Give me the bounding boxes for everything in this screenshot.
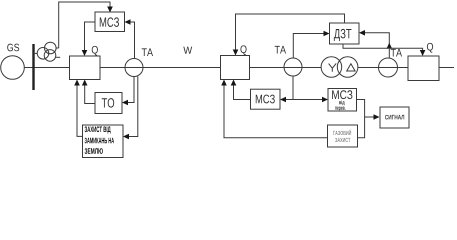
relay TO cutoff <box>95 93 122 114</box>
wire DZT to Q2 trip top run <box>236 14 345 54</box>
earth fault protection box <box>83 125 124 158</box>
wire transformer to Q3 <box>358 67 408 69</box>
wire TO to Q1 trip <box>85 81 95 104</box>
wire W line TA1 to breaker Q2 <box>100 67 221 69</box>
text signal <box>385 115 404 120</box>
breaker Q1 <box>70 56 101 80</box>
breaker Q2 <box>221 56 250 80</box>
text earth fault line2 <box>85 138 114 144</box>
wire TA3 to DZT <box>361 33 390 58</box>
label W <box>183 47 192 54</box>
label Q3 <box>427 43 433 53</box>
text earth fault line3 <box>85 148 103 154</box>
text MC3 U3 <box>332 90 352 99</box>
label Y winding <box>329 63 337 71</box>
direction arrow on TA3 wire <box>387 43 393 49</box>
label TA3 <box>391 49 402 57</box>
text vid U3 <box>339 100 345 105</box>
gas protection box <box>328 125 358 147</box>
voltage transformer TV (3-winding) <box>35 42 61 61</box>
transformer T1 star-delta <box>321 57 358 78</box>
relay DZT differential <box>330 23 360 44</box>
label TA2 <box>275 46 286 54</box>
breaker Q3 <box>408 56 439 81</box>
text MC3 U1 <box>100 17 119 27</box>
CT TA1 <box>125 59 143 77</box>
label TA1 <box>142 48 153 56</box>
wire TA1 to relay MC3 <box>127 22 135 59</box>
text TO <box>102 98 114 108</box>
text perev U3 <box>335 107 345 111</box>
text gas line2 <box>335 138 350 142</box>
wire MC3 U3 and gas protection to signal <box>357 100 380 138</box>
wire DZT to Q3 trip <box>343 44 423 55</box>
wire GS to bus <box>24 67 69 69</box>
CT TA2 <box>284 58 302 76</box>
wire MC3 to breaker Q1 trip <box>85 22 96 55</box>
wire Q2 to transformer <box>250 67 322 69</box>
wire TA1 to TO <box>124 77 134 103</box>
label Q2 <box>240 45 246 55</box>
wire TA2 to MC3 relays both sides <box>280 76 328 102</box>
relay MC3 U2 line overcurrent <box>251 89 281 109</box>
wire Q3 to line end <box>439 67 454 69</box>
wire MC3 U2 to Q2 trip <box>234 81 251 100</box>
bus bar <box>32 44 34 90</box>
label GS <box>7 44 19 52</box>
relay MC3 U1 generator overcurrent <box>95 12 125 32</box>
label Q1 <box>92 46 98 56</box>
CT TA3 <box>379 58 398 77</box>
text gas line1 <box>333 130 351 135</box>
signal box <box>380 107 409 128</box>
wire TA1 to earth fault box <box>125 77 138 137</box>
relay MC3 U3 overload <box>328 89 357 112</box>
wire earth fault box to Q1 trip <box>77 81 83 136</box>
text earth fault line1 <box>85 126 111 133</box>
text MC3 U2 <box>256 95 275 104</box>
wire gas protection to Q2 trip <box>224 81 328 138</box>
text DZT <box>334 29 352 41</box>
generator GS <box>1 56 25 80</box>
wire TV to relay MC3 top <box>59 2 110 48</box>
wire TA2 to DZT <box>293 34 328 59</box>
